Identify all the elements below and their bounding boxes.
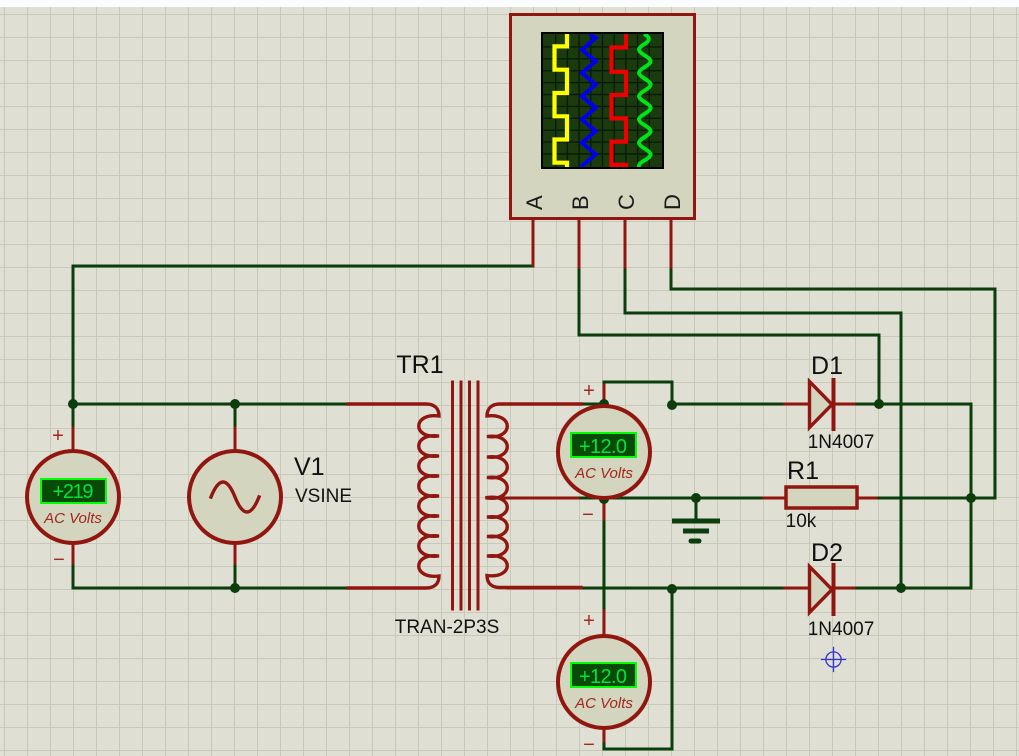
node ground [691, 493, 701, 503]
pin TR1 secondary bottom [508, 587, 581, 590]
svg-text:+219: +219 [53, 481, 94, 503]
ground [672, 521, 720, 541]
origin marker [822, 648, 846, 672]
svg-text:+: + [583, 610, 595, 632]
svg-text:V1: V1 [294, 453, 325, 481]
svg-text:+: + [583, 380, 595, 402]
pin R1 right [857, 497, 879, 500]
pin VM3 plus red [603, 611, 606, 637]
pin VM3 minus red [603, 728, 606, 744]
wire VM1 minus green [72, 566, 75, 588]
pin TR1 primary bottom [348, 587, 427, 590]
source V1 body [189, 451, 281, 543]
pin D1 anode [785, 403, 810, 406]
node VM2 minus [599, 494, 609, 504]
transformer TR1 primary winding [348, 404, 439, 588]
wire D2 cathode to output corner [857, 498, 971, 588]
pin VM2 plus red [603, 382, 606, 406]
pin R1 left [764, 497, 786, 500]
trace A yellow square wave [555, 35, 568, 167]
voltmeter VM1 display [41, 479, 106, 503]
svg-text:TRAN-2P3S: TRAN-2P3S [395, 617, 500, 638]
svg-text:AC Volts: AC Volts [43, 510, 102, 527]
wire D from oscilloscope channel D to output node [671, 266, 995, 498]
trace B blue triangle wave [582, 35, 596, 166]
wire ground stub [695, 498, 698, 519]
node D2 cathode C [896, 583, 906, 593]
svg-text:TR1: TR1 [396, 351, 443, 379]
node output [966, 493, 976, 503]
voltmeter VM2 body [558, 406, 650, 498]
pin TR1 secondary top [508, 403, 581, 406]
svg-text:AC Volts: AC Volts [574, 465, 633, 482]
pin TR1 primary top [348, 403, 427, 406]
source V1 sine glyph [211, 482, 259, 512]
wire VM2 jog over to node [604, 382, 672, 404]
pin scope A [532, 220, 535, 265]
svg-text:VSINE: VSINE [295, 486, 352, 507]
wire VM3 minus green [603, 744, 606, 749]
wire secondary bottom to D2 anode [581, 587, 785, 590]
node D1 cathode B [874, 399, 884, 409]
voltmeter VM2 display [571, 433, 636, 457]
svg-text:B: B [568, 195, 593, 210]
diode D1 [810, 380, 834, 429]
node V1 bottom [230, 583, 240, 593]
pin VM1 minus red [72, 543, 75, 566]
junction node dots [68, 399, 976, 594]
node D2 wire [667, 584, 677, 594]
svg-text:R1: R1 [787, 457, 819, 485]
pin V1 plus red [234, 428, 237, 451]
wire V1 plus stub green [234, 404, 237, 428]
pin scope D [670, 220, 673, 267]
svg-text:+12.0: +12.0 [579, 666, 627, 688]
voltmeter VM3 display [571, 663, 636, 687]
transformer TR1 secondary top winding [487, 404, 581, 498]
voltmeter VM3 body [558, 636, 650, 728]
wire C from oscilloscope channel C to D2 cathode [625, 266, 901, 588]
svg-text:D1: D1 [811, 352, 843, 380]
wire B from oscilloscope channel B to D1 cathode [579, 266, 879, 404]
node V1 top [230, 399, 240, 409]
wire centre tap to R1 [581, 497, 764, 500]
node VM1 top [68, 399, 78, 409]
voltmeter VM1 body [27, 451, 119, 543]
svg-text:AC Volts: AC Volts [574, 695, 633, 712]
svg-text:+12.0: +12.0 [579, 436, 627, 458]
pin scope C [624, 220, 627, 267]
diode D2 [810, 565, 834, 614]
resistor R1 [786, 487, 857, 508]
trace D green sine wave [639, 35, 651, 168]
pin VM1 plus red [72, 428, 75, 451]
wire top-left horizontal net [73, 403, 348, 406]
wire V1 minus green [234, 566, 237, 588]
wire VM3 minus loop [604, 589, 672, 749]
svg-text:−: − [582, 504, 594, 526]
transformer TR1 secondary bottom winding [487, 497, 581, 587]
pin scope B [578, 220, 581, 267]
wire R1 right to wire D [879, 497, 995, 500]
svg-text:D2: D2 [811, 539, 843, 567]
wire node to D1 anode [672, 403, 785, 406]
svg-text:1N4007: 1N4007 [808, 432, 875, 453]
wire bottom-left horizontal net [73, 587, 348, 590]
wire A from oscilloscope channel A to primary top [73, 265, 533, 404]
wire VM1 plus stub green [72, 404, 75, 428]
svg-text:1N4007: 1N4007 [808, 619, 875, 640]
pin D2 cathode [833, 587, 857, 590]
wire VM2 minus down to VM3 [603, 522, 606, 611]
oscilloscope body [511, 15, 695, 219]
pin TR1 centre tap [488, 497, 581, 500]
pin VM2 minus red [603, 499, 606, 522]
wire secondary top to VM2 [581, 403, 604, 406]
oscilloscope screen grid [544, 35, 661, 166]
trace C red square wave [612, 35, 627, 167]
svg-text:+: + [52, 425, 64, 447]
node VM2 plus [599, 399, 609, 409]
svg-text:A: A [522, 195, 547, 210]
pin D2 anode [785, 587, 810, 590]
svg-text:10k: 10k [786, 511, 817, 532]
node jog join [667, 400, 677, 410]
pin V1 minus red [234, 543, 237, 566]
oscilloscope screen [542, 33, 663, 168]
pin D1 cathode [833, 403, 857, 406]
svg-text:−: − [53, 549, 65, 571]
svg-text:D: D [660, 194, 685, 210]
transformer TR1 core [453, 382, 479, 609]
svg-text:C: C [614, 194, 639, 210]
wire D1 cathode to corner [857, 404, 971, 498]
svg-text:−: − [583, 734, 595, 756]
